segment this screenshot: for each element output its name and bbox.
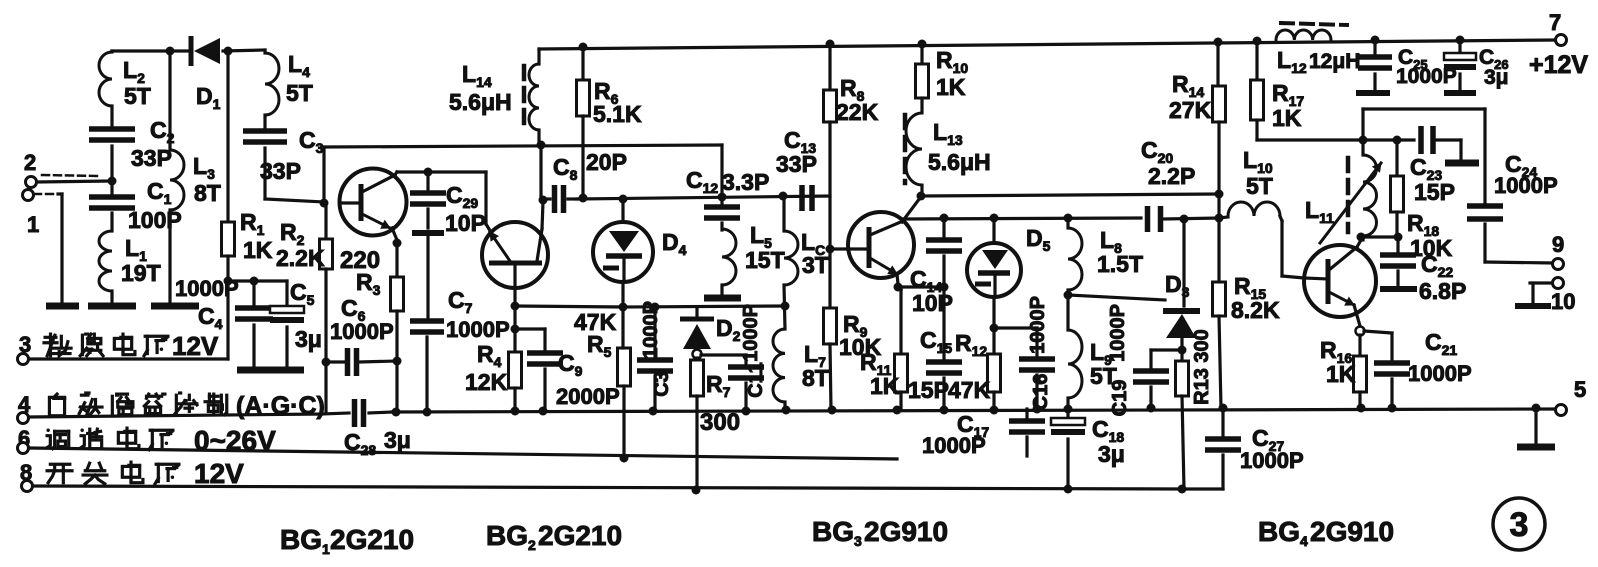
wire collector rail to BG2 emitter: [397, 170, 486, 173]
svg-text:3μ: 3μ: [1484, 66, 1509, 89]
diode D1: [189, 36, 194, 66]
wire: [265, 199, 324, 202]
capacitor C17: [1025, 409, 1028, 420]
wire: [1361, 236, 1364, 240]
svg-text:1000P: 1000P: [1107, 304, 1129, 362]
svg-text:1000P: 1000P: [640, 301, 662, 359]
inductor L11: [1361, 140, 1364, 155]
capacitor C2: [89, 126, 135, 132]
wire: [830, 247, 848, 250]
label 自动增益控制(A·G·C): [49, 394, 64, 416]
ground right: [1534, 408, 1537, 444]
ground: [88, 303, 136, 310]
capacitor C3: [243, 128, 287, 134]
wire: [412, 230, 444, 236]
capacitor C7: [410, 318, 444, 324]
page number 3: [1493, 498, 1545, 550]
wire D3 top net: [1068, 295, 1165, 300]
resistor R1: [226, 51, 229, 222]
svg-text:1000P: 1000P: [1027, 296, 1049, 354]
wire C8 net: [577, 196, 830, 199]
svg-text:33P: 33P: [776, 151, 817, 177]
svg-text:1000P: 1000P: [740, 304, 762, 362]
svg-text:12μH: 12μH: [1309, 50, 1360, 73]
svg-text:(A·G·C): (A·G·C): [236, 392, 325, 420]
resistor R11: [898, 287, 901, 290]
svg-text:C11: C11: [745, 362, 767, 398]
svg-text:+12V: +12V: [1529, 51, 1588, 79]
svg-text:1000P: 1000P: [922, 433, 986, 458]
wire BG3 collector branch: [903, 218, 1141, 219]
svg-text:1K: 1K: [936, 74, 966, 100]
wire: [695, 396, 698, 490]
wire: [395, 361, 398, 411]
node: [539, 196, 548, 205]
resistor R6: [581, 47, 584, 80]
wire: [112, 49, 189, 52]
resistor R3: [395, 243, 398, 277]
resistor R4: [513, 306, 516, 352]
inductor Lc: [782, 196, 785, 231]
transistor BG3: [848, 212, 914, 278]
svg-text:5.6μH: 5.6μH: [449, 89, 512, 115]
svg-text:R13 300: R13 300: [1191, 329, 1213, 405]
inductor L8: [1066, 218, 1069, 228]
svg-text:15P: 15P: [1414, 179, 1455, 205]
capacitor C15: [942, 287, 945, 361]
svg-text:5T: 5T: [124, 83, 151, 109]
svg-text:2G210: 2G210: [330, 524, 414, 555]
capacitor C5: [285, 281, 288, 308]
capacitor C11: [701, 353, 746, 356]
capacitor C22: [1396, 240, 1399, 254]
wire: [324, 362, 327, 412]
node C29 tap: [424, 168, 433, 177]
resistor R5: [618, 348, 631, 386]
inductor L5: [722, 229, 736, 285]
capacitor C9: [515, 327, 545, 330]
capacitor C3 bypass: [653, 307, 656, 359]
resistor R18: [1395, 140, 1398, 176]
label 开关电压 12V: [47, 464, 72, 482]
node junction on top-left rail: [166, 47, 175, 56]
node junction right of D1: [224, 47, 233, 56]
transistor BG2: [482, 222, 548, 288]
capacitor C12: [720, 145, 723, 206]
node BG2 base: [511, 302, 520, 311]
svg-text:300: 300: [700, 409, 740, 436]
wire: [621, 307, 624, 348]
wire: [898, 285, 944, 288]
AGC bus wire: [392, 409, 1556, 412]
ground: [151, 303, 199, 310]
svg-text:10: 10: [1551, 289, 1575, 314]
wire collector to C20 node: [921, 194, 1219, 196]
node R3 bottom: [393, 357, 402, 366]
svg-text:15T: 15T: [745, 247, 785, 273]
resistor R17: [1255, 41, 1258, 80]
svg-text:5T: 5T: [286, 80, 313, 106]
node: [1215, 190, 1224, 199]
capacitor C27: [1221, 408, 1224, 438]
svg-text:2G910: 2G910: [864, 516, 948, 547]
wire: [168, 210, 171, 303]
inductor L3: [170, 150, 184, 210]
node C3 tap: [651, 303, 660, 312]
diode D2: [680, 317, 714, 322]
svg-text:2.2K: 2.2K: [276, 245, 325, 271]
svg-text:7: 7: [1549, 10, 1561, 35]
resistor R12: [992, 328, 995, 354]
junction circle: [1356, 327, 1365, 336]
capacitor C13: [799, 185, 805, 211]
svg-text:3μ: 3μ: [1098, 441, 1125, 467]
svg-text:2G910: 2G910: [1310, 516, 1394, 547]
node: [893, 406, 902, 415]
resistor R16: [1358, 335, 1361, 356]
node BG1 emitter: [393, 239, 402, 248]
svg-text:10P: 10P: [445, 210, 486, 236]
svg-text:33P: 33P: [260, 158, 301, 184]
svg-text:8T: 8T: [194, 180, 221, 206]
svg-text:1000P: 1000P: [1494, 173, 1558, 198]
svg-text:2.2P: 2.2P: [1148, 163, 1195, 189]
inductor L10: [1219, 217, 1228, 218]
capacitor C16: [994, 326, 1037, 329]
svg-text:20P: 20P: [586, 149, 627, 175]
node: [1359, 136, 1368, 145]
resistor R7: [695, 358, 698, 360]
node: [1064, 291, 1073, 300]
label 转换电压12V: [44, 334, 71, 356]
svg-text:1K: 1K: [870, 373, 900, 399]
svg-text:1000P: 1000P: [330, 319, 394, 344]
svg-text:9: 9: [1552, 232, 1564, 257]
wire BG4 collector: [1357, 240, 1361, 247]
wire BG3 collector: [902, 198, 920, 222]
resistor R9: [828, 249, 831, 308]
svg-text:12K: 12K: [465, 369, 508, 395]
resistor R2: [324, 206, 327, 239]
label 调谐电压 0~26V: [46, 429, 68, 449]
diode D3: [1182, 219, 1185, 306]
capacitor C24: [1467, 203, 1503, 209]
top rail: [539, 40, 1556, 49]
svg-text:3μ: 3μ: [295, 326, 322, 352]
svg-text:15P: 15P: [908, 377, 949, 403]
svg-text:47K: 47K: [948, 377, 991, 403]
svg-text:3T: 3T: [802, 252, 829, 278]
capacitor C25: [1373, 40, 1376, 56]
node: [1393, 136, 1402, 145]
svg-text:8.2K: 8.2K: [1231, 297, 1280, 323]
svg-text:10P: 10P: [912, 290, 953, 316]
svg-text:8T: 8T: [802, 365, 829, 391]
wire R17 to osc: [1257, 138, 1363, 141]
svg-text:C16: C16: [1030, 374, 1052, 411]
wire BG2 collector: [542, 202, 543, 229]
capacitor C29: [426, 172, 429, 192]
svg-text:1.5T: 1.5T: [1097, 251, 1143, 277]
capacitor C23: [1418, 126, 1424, 154]
node: [511, 407, 520, 416]
svg-text:3: 3: [1510, 506, 1529, 544]
node: [579, 43, 588, 52]
node D5 bottom: [990, 324, 999, 333]
node: [392, 408, 401, 417]
inductor L9: [1066, 295, 1069, 330]
diode D4 varactor: [621, 199, 624, 222]
svg-text:2000P: 2000P: [556, 384, 620, 409]
transistor BG1: [340, 169, 407, 236]
svg-text:22K: 22K: [836, 99, 879, 125]
node: [940, 214, 949, 223]
node BG3 emitter: [894, 283, 903, 292]
transistor BG4: [1304, 245, 1376, 317]
svg-text:33P: 33P: [131, 145, 172, 171]
resistor R13: [1180, 338, 1183, 361]
node D4 bottom: [619, 303, 628, 312]
capacitor C1: [110, 184, 113, 196]
node A (antenna input node): [108, 177, 117, 186]
node C4 tap: [250, 277, 259, 286]
inductor L2: [110, 51, 113, 52]
wire D2 top net: [623, 306, 785, 307]
svg-text:5: 5: [1574, 377, 1586, 402]
svg-text:5.1K: 5.1K: [593, 101, 642, 127]
resistor R14: [1216, 42, 1219, 86]
svg-text:1000P: 1000P: [1408, 361, 1472, 386]
capacitor C8: [543, 197, 550, 200]
wire: [168, 51, 171, 150]
wire BG4 emitter: [1354, 305, 1360, 326]
svg-text:2G210: 2G210: [538, 520, 622, 551]
capacitor C20: [1145, 206, 1151, 232]
svg-text:1: 1: [27, 212, 39, 237]
svg-text:12V: 12V: [194, 458, 244, 489]
wire: [1361, 235, 1398, 238]
capacitor C14: [942, 218, 945, 239]
capacitor C4: [252, 281, 255, 307]
wire BG1 emitter: [392, 228, 397, 240]
svg-text:1000P: 1000P: [1240, 448, 1304, 473]
node: [537, 141, 546, 150]
node: [826, 245, 835, 254]
inductor L7: [784, 285, 785, 329]
svg-text:6.8P: 6.8P: [1419, 278, 1466, 304]
node R1 bottom: [224, 277, 233, 286]
wire: [1182, 487, 1223, 490]
svg-text:1000P: 1000P: [446, 317, 510, 342]
capacitor C18: [1066, 409, 1069, 420]
inductor L12: [1276, 30, 1331, 40]
svg-text:C19: C19: [1109, 380, 1131, 417]
svg-text:12V: 12V: [172, 331, 219, 361]
ground: [237, 367, 271, 374]
node: [620, 454, 629, 463]
wire BG2 emitter: [486, 224, 489, 229]
capacitor C21: [1364, 331, 1392, 333]
node: [917, 192, 926, 201]
svg-text:1K: 1K: [1326, 361, 1356, 387]
wire: [1217, 122, 1220, 194]
node BG1 base: [320, 199, 329, 208]
inductor L1: [99, 231, 112, 291]
svg-text:2: 2: [24, 150, 36, 175]
capacitor C19: [1151, 348, 1182, 351]
ground: [270, 367, 304, 374]
node: [1394, 233, 1403, 242]
capacitor C6: [326, 360, 344, 363]
wire: [228, 279, 287, 282]
svg-text:1K: 1K: [243, 237, 273, 263]
svg-text:19T: 19T: [121, 260, 161, 286]
svg-text:1K: 1K: [1272, 105, 1302, 131]
node R2 bottom: [322, 358, 331, 367]
node: [579, 194, 588, 203]
wire (base/C8 net): [324, 145, 722, 147]
wire BG3 emitter: [897, 274, 898, 284]
ground: [46, 303, 79, 310]
diode D5 varactor: [992, 218, 995, 243]
node: [940, 283, 949, 292]
node: [1215, 214, 1224, 223]
wire base to D4 net: [515, 306, 623, 307]
svg-text:3.3P: 3.3P: [722, 169, 769, 195]
inductor L14: [537, 49, 540, 64]
svg-text:C3: C3: [651, 371, 673, 397]
resistor R8: [828, 44, 831, 90]
wire BG4 base: [1304, 278, 1328, 279]
svg-text:5.6μH: 5.6μH: [928, 149, 991, 175]
wire output branch: [1361, 109, 1364, 140]
wire: [539, 145, 542, 197]
node BG4 collector: [1357, 233, 1366, 242]
svg-text:0~26V: 0~26V: [194, 425, 276, 456]
capacitor C26: [1458, 40, 1461, 55]
svg-text:5T: 5T: [1246, 173, 1273, 199]
wire BG1 collector: [394, 172, 397, 176]
inductor L13: [906, 113, 922, 185]
resistor R15: [1213, 282, 1226, 316]
node: [1357, 404, 1366, 413]
svg-text:3μ: 3μ: [384, 427, 411, 453]
svg-text:27K: 27K: [1169, 97, 1212, 123]
inductor L4: [263, 50, 266, 53]
wire: [322, 147, 325, 203]
wire (dashed): [42, 175, 100, 176]
resistor R10: [920, 44, 923, 64]
capacitor C28: [322, 413, 349, 414]
wire osc tank: [1363, 138, 1414, 141]
